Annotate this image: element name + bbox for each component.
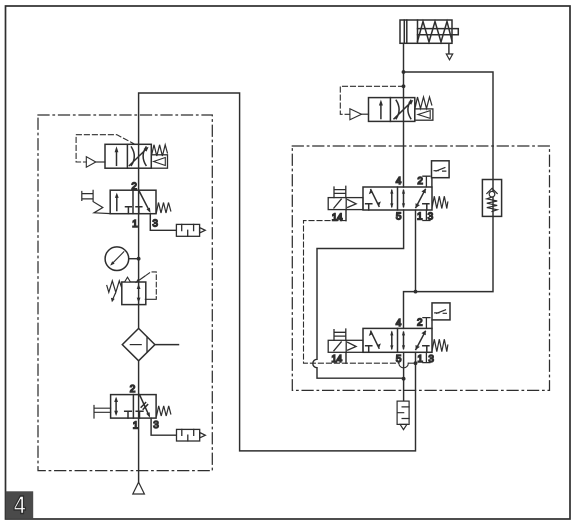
valve V3 spring xyxy=(432,196,448,208)
svg-text:4: 4 xyxy=(396,176,402,187)
junction node at pilot branch V2 xyxy=(402,84,406,88)
svg-text:14: 14 xyxy=(331,354,342,365)
page number tag xyxy=(6,491,34,519)
valve V4 port 2 plug xyxy=(423,318,430,329)
filter F element (dashed) xyxy=(130,344,141,346)
valve V4 spring xyxy=(432,339,448,351)
cylinder A1 (single-acting, spring return) xyxy=(400,20,458,43)
valve M2 (3/2 shut-off) xyxy=(111,395,157,419)
regulator R spring xyxy=(107,281,122,300)
svg-text:4: 4 xyxy=(396,318,402,329)
silencer S2 xyxy=(177,429,206,441)
air supply triangle xyxy=(133,482,145,494)
svg-text:14: 14 xyxy=(332,212,343,223)
valve V4 (5/2 pilot valve, bottom) xyxy=(363,328,432,352)
svg-text:2: 2 xyxy=(131,181,137,192)
svg-text:5: 5 xyxy=(396,212,402,223)
valve V2 pilot box with triangle xyxy=(415,109,433,120)
filter F (diamond) xyxy=(122,328,155,360)
svg-text:4: 4 xyxy=(14,491,26,519)
wire: valve V3 port 14 stub xyxy=(345,210,347,221)
svg-text:3: 3 xyxy=(153,420,159,431)
svg-text:1: 1 xyxy=(133,421,139,432)
svg-text:1: 1 xyxy=(417,354,423,365)
valve M2 push-pull actuator xyxy=(94,406,111,419)
valve V3 pilot actuator xyxy=(328,186,363,209)
valve V1 spring xyxy=(152,145,168,156)
junction node at cylinder branch xyxy=(402,70,406,74)
valve M1 (3/2 manual) xyxy=(110,190,156,214)
wire: main supply run (left riser, top run, right drop, bottom run, up to valve V4 port 1) xyxy=(139,93,416,482)
svg-text:1: 1 xyxy=(417,211,423,222)
svg-text:3: 3 xyxy=(428,212,434,223)
valve V4 port 3 plug xyxy=(423,352,430,362)
wire: cylinder exhaust stub xyxy=(448,43,450,54)
wire: valve V4 port 14 stub xyxy=(345,352,347,363)
check valve CV (spring loaded) xyxy=(482,180,501,217)
wire: gauge G link xyxy=(129,258,139,260)
pilot line valve V1 (dashed) xyxy=(76,135,135,162)
svg-text:1: 1 xyxy=(132,219,138,230)
svg-text:2: 2 xyxy=(417,176,423,187)
wire: valve M2 port 3 to silencer S2 xyxy=(151,418,176,435)
wire: sensor S2 stub xyxy=(431,320,433,329)
svg-text:2: 2 xyxy=(130,384,136,395)
wire: filter F drain xyxy=(155,344,179,346)
valve V1 pilot box with triangle xyxy=(151,155,167,168)
valve M2 spring xyxy=(157,406,171,416)
regulator R adjust arrow xyxy=(137,276,145,282)
filter F separator chord xyxy=(146,337,148,352)
flow control valve V1 (left top) xyxy=(105,144,151,168)
valve M1 spring xyxy=(156,203,171,214)
valve V2 left pilot triangle xyxy=(350,109,362,120)
valve M1 push-button actuator xyxy=(82,190,110,213)
junction node gauge xyxy=(137,257,141,261)
junction node pilot to supply line xyxy=(414,361,418,365)
regulator R xyxy=(122,282,146,305)
enclosure right (dash-dot box) xyxy=(292,146,549,390)
regulator R pilot loop (dashed) xyxy=(146,272,156,297)
valve V3 port 3 plug xyxy=(423,210,430,221)
valve V4 pilot actuator xyxy=(328,329,363,352)
wire: branch right to check valve CV and down to valve V4 port 4 xyxy=(404,72,494,328)
valve V2 spring xyxy=(415,97,432,109)
cylinder exhaust triangle xyxy=(446,54,452,60)
pilot line valve V2 (dashed) xyxy=(340,86,403,114)
junction node exhaust lines xyxy=(402,377,406,381)
svg-text:3: 3 xyxy=(152,218,158,229)
silencer S3 (exhaust) xyxy=(397,401,409,430)
svg-text:2: 2 xyxy=(417,317,423,328)
flow control valve V2 (top right) xyxy=(369,98,415,122)
svg-text:3: 3 xyxy=(428,354,434,365)
wire: valve V3 port 1 down to junction xyxy=(415,210,417,292)
pilot line valves V3-14 / V4-14 with hop (dashed) xyxy=(304,221,416,364)
junction node V3 port1 / V4 port4 line xyxy=(414,290,418,294)
regulator R vent triangle xyxy=(125,277,131,282)
valve V3 port 2 plug xyxy=(423,176,430,187)
wire: sensor S1 stub xyxy=(431,178,433,187)
valve V1 left pilot triangle xyxy=(86,157,96,168)
wire: valve M1 port 3 to silencer S1 xyxy=(150,214,176,231)
gauge G xyxy=(105,247,129,271)
sensor box S2 xyxy=(432,303,450,320)
sensor box S1 xyxy=(432,161,450,178)
wire: valve V3 port 5 exhaust run with hop over pilot line xyxy=(313,210,404,378)
enclosure left (dash-dot box) xyxy=(38,115,212,471)
valve V3 (5/2 pilot valve, top) xyxy=(363,187,432,210)
svg-text:5: 5 xyxy=(396,354,402,365)
wire: cylinder line down through valve V2 to valve V3 port 4 xyxy=(403,43,405,187)
silencer S1 xyxy=(176,224,205,236)
wire: valve V4 port 5 down to silencer S3 xyxy=(403,352,405,401)
